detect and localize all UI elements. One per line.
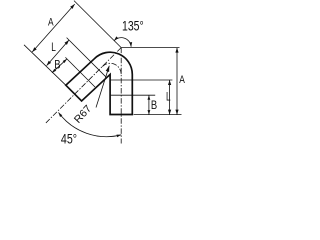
dimension line A right xyxy=(176,48,178,115)
elbow tube body outline xyxy=(66,52,133,114)
extension line of end face E0 xyxy=(24,45,66,85)
centerline vertical leg xyxy=(120,48,122,144)
svg-text:L: L xyxy=(51,42,56,55)
svg-text:R67: R67 xyxy=(72,103,94,126)
socket line B diagonal leg + extension xyxy=(65,57,95,87)
extension line through apex xyxy=(74,1,121,48)
dimension line B right xyxy=(148,95,150,114)
svg-text:135°: 135° xyxy=(122,18,144,34)
svg-text:45°: 45° xyxy=(61,131,77,147)
socket line L vertical leg + extension xyxy=(110,79,172,81)
centerline diagonal leg xyxy=(45,48,121,124)
horizontal extension line from apex xyxy=(121,47,179,49)
svg-text:L: L xyxy=(166,91,171,104)
socket line B vertical leg + extension xyxy=(110,94,155,96)
centerline bend arc xyxy=(102,63,121,74)
angle arc 45 deg xyxy=(59,113,122,137)
svg-text:A: A xyxy=(48,16,54,29)
leader line R67 xyxy=(96,66,109,108)
bottom extension line xyxy=(134,114,182,116)
dimension line L top-left xyxy=(47,40,69,66)
socket line L diagonal leg + extension xyxy=(67,38,106,77)
svg-text:B: B xyxy=(54,59,60,72)
svg-text:B: B xyxy=(151,99,157,112)
dimension line A top-left xyxy=(32,4,74,52)
dimension line L right xyxy=(169,80,171,115)
dimension line B top-left xyxy=(52,59,67,73)
svg-text:A: A xyxy=(179,74,185,87)
angle arc 135 deg xyxy=(114,38,131,47)
